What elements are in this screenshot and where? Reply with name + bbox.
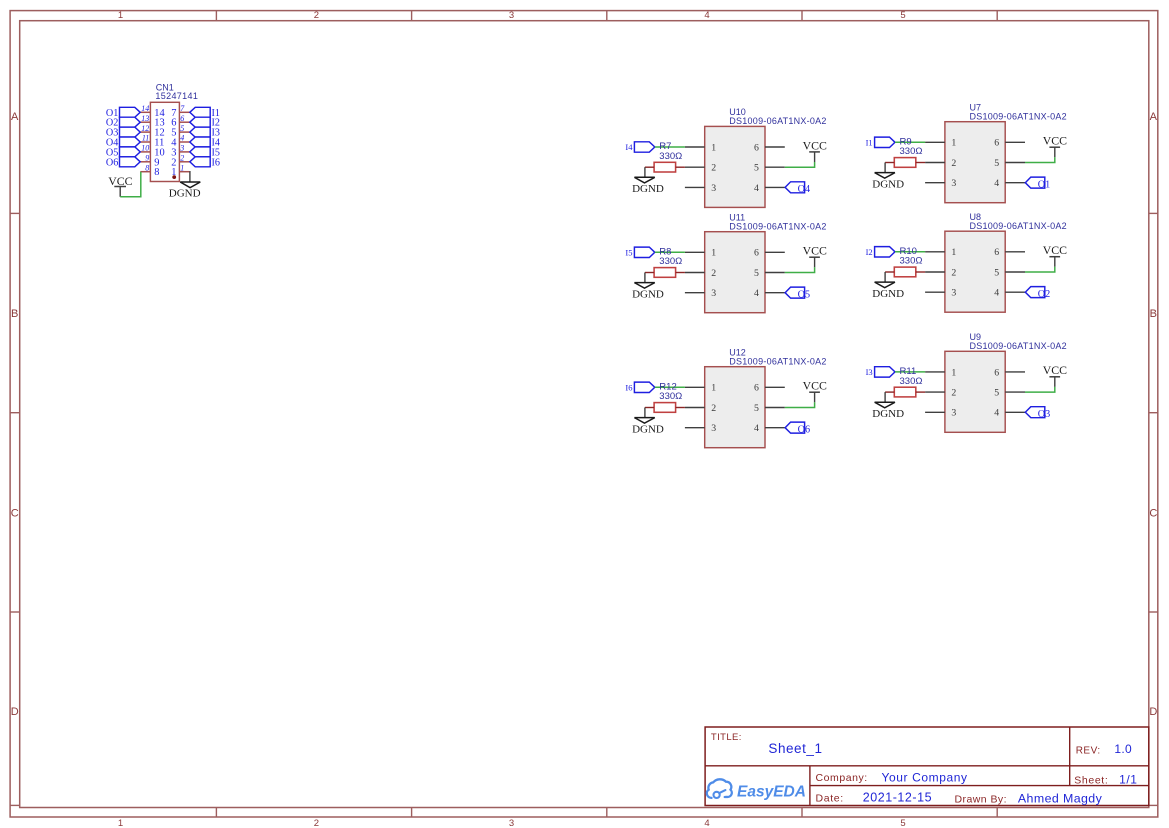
svg-text:1: 1 <box>951 367 956 378</box>
svg-text:6: 6 <box>994 247 999 258</box>
svg-text:B: B <box>1150 308 1157 320</box>
svg-text:VCC: VCC <box>1043 134 1067 148</box>
resistor R12 body <box>645 403 685 413</box>
ground DGND symbol at U9 <box>872 402 904 420</box>
frame row ticks right <box>1149 213 1158 805</box>
IC U7 pin numbers <box>951 138 999 189</box>
svg-text:6: 6 <box>994 367 999 378</box>
svg-text:I2: I2 <box>866 247 873 257</box>
resistor R9 body <box>885 158 925 168</box>
EasyEDA logo cloud icon <box>707 779 732 798</box>
wire CN1 pin8 to VCC <box>120 172 141 197</box>
svg-text:DGND: DGND <box>169 188 201 200</box>
net flag I6 <box>625 382 654 392</box>
svg-text:330Ω: 330Ω <box>900 256 923 267</box>
svg-text:DS1009-06AT1NX-0A2: DS1009-06AT1NX-0A2 <box>729 116 826 126</box>
svg-text:6: 6 <box>754 142 759 153</box>
ground DGND symbol at U12 <box>632 418 664 436</box>
net flag I4 <box>190 137 220 149</box>
wire I6 to U12 pin 1 <box>655 386 685 388</box>
ground DGND symbol at U11 <box>632 283 664 301</box>
svg-text:DS1009-06AT1NX-0A2: DS1009-06AT1NX-0A2 <box>970 341 1067 351</box>
net flag O6 <box>785 422 810 435</box>
power VCC symbol at U8 <box>1043 243 1067 267</box>
svg-text:DS1009-06AT1NX-0A2: DS1009-06AT1NX-0A2 <box>970 221 1067 231</box>
wire R11 to DGND <box>884 392 886 402</box>
wire I2 to U8 pin 1 <box>895 251 925 253</box>
IC U7 pin lines 6,5,4 <box>1005 142 1025 182</box>
resistor R10 body <box>885 267 925 277</box>
IC U8 pin lines 1,2,3 <box>925 252 945 292</box>
svg-text:13: 13 <box>141 114 149 123</box>
svg-text:330Ω: 330Ω <box>900 146 923 157</box>
svg-text:3: 3 <box>509 10 514 21</box>
net flag O1 <box>1025 177 1050 190</box>
svg-text:2: 2 <box>951 267 956 278</box>
resistor R7 body <box>645 162 685 172</box>
net flag I1 <box>866 137 895 147</box>
net flag O2 <box>106 117 140 129</box>
power VCC symbol at U11 <box>803 244 827 268</box>
svg-text:I4: I4 <box>625 142 633 152</box>
CN1 outer pin numbers left <box>141 104 149 172</box>
power VCC symbol at CN1 <box>108 174 132 197</box>
svg-text:O6: O6 <box>798 424 810 435</box>
wire CN1 pin1 to DGND <box>189 172 191 182</box>
wire R7 to DGND <box>644 167 646 177</box>
net flag I3 <box>866 367 895 377</box>
svg-text:4: 4 <box>994 178 999 189</box>
svg-text:DGND: DGND <box>872 408 904 420</box>
wire R10 to DGND <box>884 272 886 282</box>
svg-text:VCC: VCC <box>1043 363 1067 377</box>
IC U11 pin lines 1,2,3 <box>685 252 705 292</box>
ground DGND symbol at U10 <box>632 177 664 195</box>
svg-text:1: 1 <box>951 247 956 258</box>
IC U11 pin numbers <box>711 248 759 299</box>
IC U10 body <box>705 126 765 207</box>
svg-text:4: 4 <box>994 408 999 419</box>
power VCC symbol at U9 <box>1043 363 1067 387</box>
IC U8 pin lines 6,5,4 <box>1005 252 1025 292</box>
svg-text:I6: I6 <box>212 157 221 168</box>
svg-text:3: 3 <box>509 818 514 828</box>
ground DGND symbol at CN1 <box>169 182 201 200</box>
svg-text:5: 5 <box>994 158 999 169</box>
svg-text:3: 3 <box>951 178 956 189</box>
svg-text:5: 5 <box>754 268 759 279</box>
svg-text:DGND: DGND <box>632 183 664 195</box>
svg-text:3: 3 <box>951 408 956 419</box>
IC U9 body <box>945 351 1005 432</box>
IC U10 pin lines 6,5,4 <box>765 147 785 187</box>
CN1 left pin stubs 14-8 <box>140 112 150 171</box>
svg-text:1: 1 <box>118 10 123 21</box>
svg-text:VCC: VCC <box>803 138 827 152</box>
frame column labels top <box>118 10 906 21</box>
power VCC symbol at U7 <box>1043 134 1067 158</box>
net flag I6 <box>190 157 220 169</box>
wire VCC to U10 pin 5 <box>785 162 815 167</box>
svg-text:8: 8 <box>145 163 149 172</box>
svg-text:O3: O3 <box>1038 409 1050 420</box>
svg-text:2: 2 <box>951 158 956 169</box>
net flag O4 <box>106 137 140 149</box>
IC U8 body <box>945 231 1005 312</box>
frame row ticks left <box>10 213 20 805</box>
net flag I4 <box>625 142 654 152</box>
svg-text:C: C <box>11 507 19 519</box>
IC U12 pin numbers <box>711 383 759 434</box>
IC U12 body <box>705 367 765 448</box>
net flag I2 <box>190 117 220 129</box>
svg-text:1: 1 <box>711 142 716 153</box>
net flag O2 <box>1025 287 1050 300</box>
IC U9 pin lines 1,2,3 <box>925 372 945 412</box>
svg-text:12: 12 <box>141 124 149 133</box>
svg-text:1/1: 1/1 <box>1119 773 1137 787</box>
net flag O3 <box>1025 407 1050 420</box>
svg-text:VCC: VCC <box>803 244 827 258</box>
svg-text:DGND: DGND <box>872 288 904 300</box>
svg-text:11: 11 <box>142 134 149 143</box>
svg-text:8: 8 <box>154 167 159 178</box>
frame row labels left <box>11 111 19 718</box>
wire VCC to U11 pin 5 <box>785 267 815 272</box>
svg-text:3: 3 <box>951 288 956 299</box>
title block dividers <box>705 727 1149 806</box>
svg-text:REV:: REV: <box>1076 745 1101 756</box>
svg-text:5: 5 <box>180 124 184 133</box>
svg-text:B: B <box>11 308 18 320</box>
svg-text:A: A <box>11 111 19 123</box>
svg-text:O6: O6 <box>106 157 118 168</box>
svg-text:2: 2 <box>711 268 716 279</box>
CN1 outer pin numbers right <box>179 104 185 172</box>
title block outline <box>705 727 1149 806</box>
svg-text:EasyEDA: EasyEDA <box>737 784 806 801</box>
svg-text:VCC: VCC <box>1043 243 1067 257</box>
svg-text:D: D <box>11 706 19 718</box>
frame column labels bottom <box>118 818 906 828</box>
IC U11 pin lines 6,5,4 <box>765 252 785 292</box>
net flag O5 <box>106 147 140 159</box>
wire VCC to U9 pin 5 <box>1025 387 1055 392</box>
IC U12 pin lines 1,2,3 <box>685 387 705 427</box>
wire R12 to DGND <box>644 408 646 418</box>
net flag O4 <box>785 182 810 195</box>
resistor R11 body <box>885 387 925 397</box>
svg-text:I3: I3 <box>866 367 873 377</box>
resistor R8 body <box>645 268 685 278</box>
wire VCC to U7 pin 5 <box>1025 157 1055 162</box>
svg-text:330Ω: 330Ω <box>659 151 682 162</box>
svg-text:330Ω: 330Ω <box>900 376 923 387</box>
power VCC symbol at U12 <box>803 379 827 403</box>
svg-text:D: D <box>1149 706 1157 718</box>
svg-text:4: 4 <box>754 423 759 434</box>
svg-text:DS1009-06AT1NX-0A2: DS1009-06AT1NX-0A2 <box>729 357 826 367</box>
svg-text:A: A <box>1150 111 1158 123</box>
svg-text:2: 2 <box>711 403 716 414</box>
svg-text:Date:: Date: <box>816 793 844 805</box>
svg-text:Sheet:: Sheet: <box>1074 774 1108 786</box>
net flag I3 <box>190 127 220 139</box>
svg-text:5: 5 <box>754 163 759 174</box>
svg-text:1.0: 1.0 <box>1114 742 1132 756</box>
svg-text:O1: O1 <box>1038 179 1050 190</box>
wire VCC to U8 pin 5 <box>1025 267 1055 272</box>
svg-text:4: 4 <box>994 288 999 299</box>
svg-text:10: 10 <box>141 144 149 153</box>
ground DGND symbol at U7 <box>872 173 904 191</box>
ground DGND symbol at U8 <box>872 282 904 300</box>
wire R9 to DGND <box>884 163 886 173</box>
svg-text:DGND: DGND <box>632 288 664 300</box>
CN1 inner pin names right column <box>171 108 177 178</box>
svg-text:15247141: 15247141 <box>155 91 198 101</box>
IC U9 pin lines 6,5,4 <box>1005 372 1025 412</box>
svg-text:6: 6 <box>754 383 759 394</box>
net flag O3 <box>106 127 140 139</box>
svg-text:DGND: DGND <box>872 178 904 190</box>
CN1 pin 1 marker dot <box>172 175 176 179</box>
svg-text:I6: I6 <box>625 382 632 392</box>
svg-text:I1: I1 <box>866 137 873 147</box>
svg-text:Company:: Company: <box>816 772 868 784</box>
svg-text:330Ω: 330Ω <box>659 256 682 267</box>
svg-text:4: 4 <box>180 134 184 143</box>
frame column ticks top <box>216 11 997 21</box>
svg-text:1: 1 <box>951 138 956 149</box>
frame row labels right <box>1149 111 1157 718</box>
svg-text:1: 1 <box>711 383 716 394</box>
svg-text:9: 9 <box>145 154 149 163</box>
IC U11 body <box>705 232 765 313</box>
svg-text:3: 3 <box>179 144 184 153</box>
svg-text:5: 5 <box>900 10 905 21</box>
IC U9 pin numbers <box>951 367 999 418</box>
svg-text:3: 3 <box>711 423 716 434</box>
svg-text:4: 4 <box>754 288 759 299</box>
svg-text:5: 5 <box>994 267 999 278</box>
svg-text:3: 3 <box>711 288 716 299</box>
net flag I5 <box>625 247 654 257</box>
svg-text:DS1009-06AT1NX-0A2: DS1009-06AT1NX-0A2 <box>970 112 1067 122</box>
net flag I1 <box>190 107 220 119</box>
svg-text:2021-12-15: 2021-12-15 <box>863 791 932 805</box>
svg-text:O2: O2 <box>1038 289 1050 300</box>
svg-text:5: 5 <box>900 818 905 828</box>
wire R8 to DGND <box>644 273 646 283</box>
svg-text:14: 14 <box>141 104 149 113</box>
svg-text:VCC: VCC <box>803 379 827 393</box>
svg-text:Ahmed Magdy: Ahmed Magdy <box>1018 792 1103 806</box>
svg-text:4: 4 <box>704 10 709 21</box>
svg-text:Your Company: Your Company <box>882 771 968 785</box>
svg-text:4: 4 <box>704 818 709 828</box>
wire VCC to U12 pin 5 <box>785 402 815 407</box>
svg-text:1: 1 <box>711 248 716 259</box>
svg-text:3: 3 <box>711 183 716 194</box>
IC U7 pin lines 1,2,3 <box>925 142 945 182</box>
net flag O5 <box>785 287 810 300</box>
svg-text:O5: O5 <box>798 289 810 300</box>
svg-text:2: 2 <box>180 154 184 163</box>
net flag I2 <box>866 247 895 257</box>
svg-text:DS1009-06AT1NX-0A2: DS1009-06AT1NX-0A2 <box>729 222 826 232</box>
svg-text:2: 2 <box>711 163 716 174</box>
CN1 inner pin names left column <box>154 108 165 178</box>
power VCC symbol at U10 <box>803 138 827 162</box>
svg-text:Sheet_1: Sheet_1 <box>768 741 822 756</box>
frame column ticks bottom <box>216 808 997 818</box>
svg-text:5: 5 <box>754 403 759 414</box>
IC U10 pin numbers <box>711 142 759 193</box>
svg-text:DGND: DGND <box>632 423 664 435</box>
IC U8 pin numbers <box>951 247 999 298</box>
svg-text:6: 6 <box>180 114 184 123</box>
svg-text:TITLE:: TITLE: <box>711 732 742 743</box>
wire I4 to U10 pin 1 <box>655 146 685 148</box>
connector CN1 body <box>150 102 179 181</box>
svg-text:I5: I5 <box>625 247 632 257</box>
IC U10 pin lines 1,2,3 <box>685 147 705 187</box>
IC U7 body <box>945 122 1005 203</box>
svg-text:6: 6 <box>994 138 999 149</box>
svg-text:Drawn By:: Drawn By: <box>955 794 1007 806</box>
wire I5 to U11 pin 1 <box>655 251 685 253</box>
svg-text:2: 2 <box>314 10 319 21</box>
svg-text:2: 2 <box>314 818 319 828</box>
svg-text:330Ω: 330Ω <box>659 391 682 402</box>
svg-text:C: C <box>1149 507 1157 519</box>
net flag I5 <box>190 147 220 159</box>
net flag O6 <box>106 157 140 169</box>
svg-text:4: 4 <box>754 183 759 194</box>
wire I1 to U7 pin 1 <box>895 141 925 143</box>
svg-text:1: 1 <box>180 163 184 172</box>
svg-text:O4: O4 <box>798 184 810 195</box>
svg-text:VCC: VCC <box>108 174 132 188</box>
CN1 right pin stubs 7-1 <box>179 112 189 171</box>
svg-text:6: 6 <box>754 248 759 259</box>
net flag O1 <box>106 107 140 119</box>
svg-text:1: 1 <box>118 818 123 828</box>
IC U12 pin lines 6,5,4 <box>765 387 785 427</box>
wire I3 to U9 pin 1 <box>895 371 925 373</box>
svg-text:2: 2 <box>951 388 956 399</box>
svg-text:5: 5 <box>994 388 999 399</box>
